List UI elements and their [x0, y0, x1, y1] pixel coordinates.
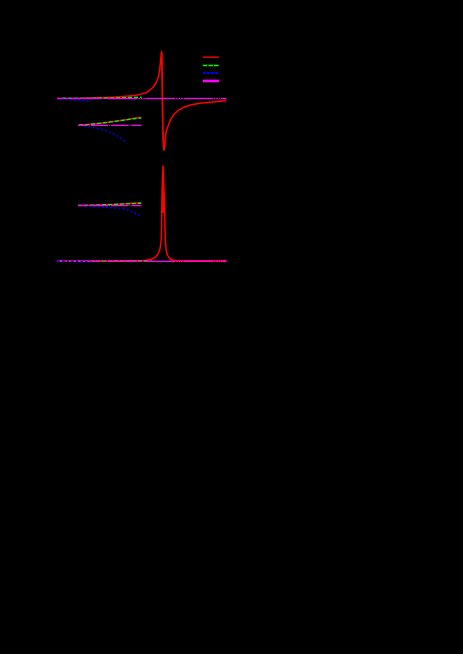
top panel: red dispersion vertical drop (reinforce) [161, 54, 163, 144]
bottom panel: red spike interior fill [162, 166, 165, 214]
top panel: green dashed curve [62, 97, 142, 98]
legend blue dotted sample [203, 72, 219, 74]
inset 2: green dashed curve [78, 203, 141, 205]
top panel: red dispersion curve chi' [57, 52, 226, 150]
inset 1: magenta dash-dot line [78, 124, 141, 126]
top panel: magenta dash-dot asymptote line [57, 98, 226, 100]
inset 1: green dashed curve [79, 118, 141, 125]
inset 1: red curve [79, 117, 141, 125]
legend green dashed sample [203, 65, 219, 67]
inset 2: magenta dash-dot line [78, 205, 141, 207]
bottom panel: blue dotted baseline [58, 260, 92, 263]
bottom panel: green dashed baseline [60, 260, 152, 262]
inset 2: blue dotted curve [85, 206, 142, 216]
legend magenta thick solid sample [203, 80, 219, 83]
top panel: blue dotted curve [58, 99, 92, 102]
inset 2: red curve [78, 203, 141, 206]
legend red solid sample [203, 56, 219, 58]
bottom panel: magenta dash-dot baseline [57, 260, 226, 262]
inset 1: blue dotted curve [85, 126, 128, 143]
bottom panel: red absorption curve chi'' with narrow Lorentzian spike [57, 166, 226, 261]
